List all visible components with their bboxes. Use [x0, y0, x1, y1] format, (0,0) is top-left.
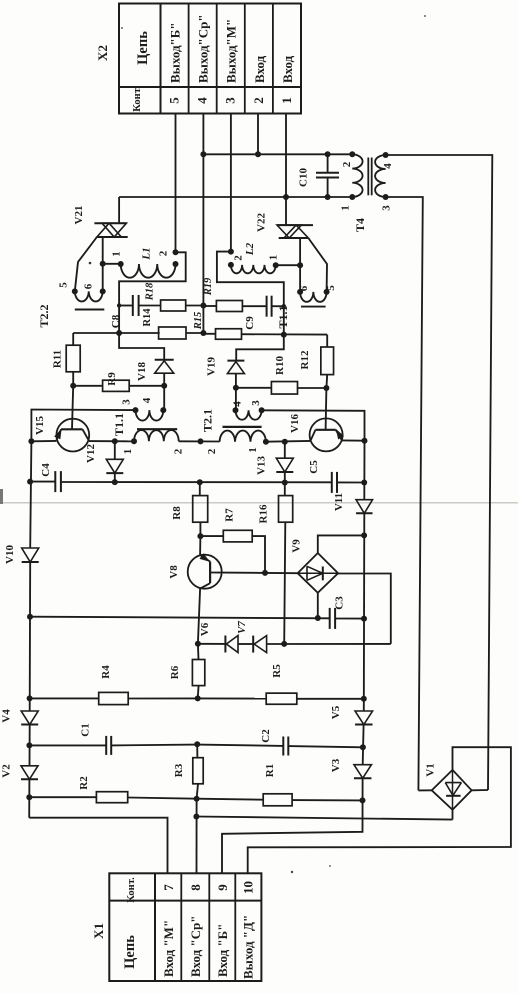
node C9 branch	[281, 332, 287, 338]
node R8-R7	[197, 533, 203, 539]
wire V22 gate to T1.1 pin5	[308, 238, 327, 292]
svg-text:Выход"М": Выход"М"	[224, 19, 239, 83]
node rail-V9bottom	[315, 615, 321, 621]
svg-text:R19: R19	[203, 277, 214, 296]
node rail-R4	[27, 695, 33, 701]
svg-text:2: 2	[341, 161, 353, 167]
svg-text:Выход "Д": Выход "Д"	[241, 915, 256, 979]
svg-text:R14: R14	[142, 308, 153, 327]
wire VLINE mid segment	[363, 513, 366, 711]
wire V16 emitter to corner	[342, 439, 365, 441]
node C10 bottom	[325, 194, 331, 200]
diode V18	[136, 360, 174, 410]
svg-text:Конт.: Конт.	[126, 877, 137, 903]
wire V7 to corner	[267, 643, 391, 645]
node C9 tap	[282, 304, 286, 308]
svg-text:R1: R1	[264, 764, 276, 777]
svg-text:V9: V9	[291, 539, 303, 553]
svg-text:V21: V21	[73, 206, 85, 225]
wire branch left channel	[119, 252, 186, 332]
wire X2 pin4 lead	[202, 114, 204, 334]
svg-text:V8: V8	[168, 565, 180, 579]
svg-text:1: 1	[247, 447, 259, 453]
svg-text:V12: V12	[85, 444, 97, 463]
node R7-V8base-V9	[262, 570, 268, 576]
svg-text:3: 3	[121, 399, 133, 405]
node rail-V15	[28, 438, 34, 444]
node C10 top	[325, 151, 331, 157]
svg-text:Т4: Т4	[353, 218, 367, 232]
resistor R4	[30, 665, 198, 705]
diode V19	[206, 357, 245, 411]
node R11-R9	[70, 383, 76, 389]
wire C9-branch to V19	[236, 335, 284, 361]
capacitor C3	[330, 596, 364, 629]
bridge rectifier V9	[291, 539, 339, 593]
bridge rectifier V1	[425, 763, 472, 810]
node R14-R15	[200, 330, 206, 336]
wire rail to X1 pin7	[29, 818, 167, 874]
svg-text:Выход"Б": Выход"Б"	[168, 22, 183, 83]
diode V2	[1, 764, 39, 818]
capacitor C2	[197, 729, 363, 756]
wire L1 pin1 link	[103, 263, 121, 265]
resistor R1	[197, 764, 363, 806]
node V12 bottom	[112, 479, 118, 485]
wire branch right channel	[217, 252, 284, 335]
node V8-V6	[195, 641, 201, 647]
wire T4 pin4 to right rail	[386, 155, 493, 790]
svg-text:6: 6	[83, 283, 95, 289]
wire V8base to V9 left vertex	[265, 572, 298, 574]
capacitor C10	[298, 154, 340, 197]
node rail-C1	[26, 742, 32, 748]
svg-text:Х1: Х1	[91, 923, 106, 939]
svg-text:V3: V3	[330, 758, 342, 772]
node R9-V18	[161, 383, 167, 389]
svg-text:Цепь: Цепь	[122, 935, 138, 969]
wire corner up to V9 right	[338, 574, 391, 644]
transformer T1.1 windings 3-4 and 1-2	[112, 397, 185, 454]
resistor R19	[203, 277, 267, 311]
connector X2 table	[119, 4, 301, 114]
wire V15 collector bus	[89, 440, 134, 442]
svg-text:Выход"Ср": Выход"Ср"	[196, 14, 211, 83]
svg-text:C8: C8	[110, 314, 122, 328]
svg-text:C1: C1	[80, 723, 92, 736]
transistor V16	[289, 388, 344, 451]
node B1	[283, 194, 289, 200]
svg-text:L2: L2	[244, 242, 256, 256]
wire V1 bottom lead	[452, 810, 454, 820]
resistor R16	[258, 483, 293, 644]
wire V21 cathode to T2.2 pin6	[102, 237, 104, 291]
capacitor C9	[244, 296, 284, 330]
capacitor C4	[30, 463, 61, 492]
node V21-L1	[100, 261, 106, 267]
inductor L2	[228, 242, 280, 273]
wire T4 pin3 to left-of-bridge rail	[386, 197, 423, 790]
resistor R12	[299, 335, 334, 388]
svg-text:3: 3	[250, 400, 262, 406]
svg-text:Т2.1: Т2.1	[201, 409, 215, 432]
svg-text:7: 7	[161, 884, 176, 891]
node A1	[200, 151, 206, 157]
resistor R18	[145, 282, 204, 311]
wire input bus B	[119, 196, 352, 198]
svg-text:2: 2	[251, 97, 266, 104]
node rail-R2	[26, 794, 32, 800]
triac V22	[256, 197, 314, 238]
wire VLINE bottom to X1 pin9	[222, 778, 363, 873]
svg-text:Х2: Х2	[95, 45, 110, 61]
svg-text:R7: R7	[224, 508, 236, 522]
triac V21	[73, 197, 128, 237]
svg-text:4: 4	[382, 163, 394, 169]
svg-text:R9: R9	[106, 372, 118, 386]
svg-text:V1: V1	[425, 763, 437, 776]
svg-text:5: 5	[58, 282, 70, 288]
svg-text:R8: R8	[171, 506, 183, 520]
wire col8 to X1 pin8	[196, 799, 198, 874]
wire W9 to V1 bottom	[196, 817, 452, 820]
svg-text:2: 2	[233, 255, 245, 261]
svg-text:1: 1	[111, 251, 123, 257]
svg-text:R10: R10	[274, 356, 286, 375]
resistor R11	[52, 333, 81, 386]
svg-text:1: 1	[279, 97, 294, 104]
svg-text:R11: R11	[52, 350, 64, 368]
diode V13	[256, 442, 294, 483]
wire L2 pin1 link	[276, 264, 300, 266]
diode V5	[330, 705, 373, 724]
svg-text:R3: R3	[173, 763, 185, 777]
svg-text:10: 10	[241, 881, 256, 894]
node center column	[198, 438, 204, 444]
wire base rail y333	[73, 332, 160, 334]
node col8-C1	[194, 741, 200, 747]
svg-text:R5: R5	[271, 664, 283, 678]
scan fold line	[0, 502, 518, 504]
transformer T4	[340, 151, 395, 232]
svg-text:C2: C2	[260, 729, 272, 743]
node R10-V19	[233, 385, 239, 391]
wire X2 pin1 lead	[285, 114, 287, 198]
wire left rail to T1.1 pin3	[31, 410, 135, 442]
diode V11	[333, 493, 373, 513]
resistor R2	[29, 776, 196, 803]
svg-text:9: 9	[215, 884, 230, 891]
svg-text:L1: L1	[141, 247, 153, 260]
node A2	[255, 151, 261, 157]
wire common rail y617	[30, 617, 330, 619]
diode V10	[4, 441, 39, 616]
wire T1.1 pin2 link	[179, 440, 220, 442]
wire VLINE between V5 V3	[362, 725, 365, 765]
node R16-V7	[281, 641, 287, 647]
svg-text:Вход "Ср": Вход "Ср"	[188, 915, 203, 977]
node VLINE-R5	[361, 696, 367, 702]
svg-text:1: 1	[268, 255, 280, 261]
wire T2.1 pin1 to V16	[266, 440, 311, 443]
wire C8-branch to V18	[119, 333, 164, 360]
svg-text:V11: V11	[333, 493, 345, 511]
node VLINE-R1	[360, 797, 366, 803]
svg-text:R12: R12	[299, 350, 311, 369]
node VLINE-C5	[361, 480, 367, 486]
svg-text:Т1.1: Т1.1	[112, 413, 126, 436]
svg-text:5: 5	[167, 97, 182, 104]
svg-text:4: 4	[195, 97, 210, 104]
diode V6	[198, 622, 238, 652]
node C8 tap	[117, 303, 121, 307]
connector X1 table	[109, 873, 261, 981]
svg-text:R2: R2	[78, 776, 90, 790]
transistor V8	[168, 536, 265, 644]
wire VLINE top segment	[363, 441, 365, 500]
node col8-R2-R1	[194, 796, 200, 802]
node V16-corner	[362, 438, 368, 444]
svg-text:1: 1	[340, 205, 352, 211]
capacitor C1	[29, 723, 197, 755]
svg-text:C4: C4	[40, 463, 52, 477]
svg-text:V19: V19	[206, 357, 218, 376]
node C8 branch	[116, 330, 122, 336]
resistor R9	[73, 372, 164, 392]
svg-text:V2: V2	[1, 764, 13, 778]
svg-text:2: 2	[173, 448, 185, 454]
svg-text:C3: C3	[334, 596, 346, 610]
resistor R10	[236, 356, 327, 395]
svg-text:C9: C9	[244, 316, 256, 330]
node rail left	[27, 614, 33, 620]
svg-text:Т2.2: Т2.2	[37, 304, 51, 327]
resistor R15	[193, 312, 327, 340]
transistor V15	[34, 386, 89, 452]
transformer T2.2 winding 5-6	[37, 282, 106, 328]
svg-text:Вход: Вход	[252, 55, 267, 83]
transformer T2.1 windings 4-3 and 2-1	[201, 400, 269, 455]
inductor L1	[111, 247, 179, 277]
node VLINE-C3	[361, 616, 367, 622]
wire V1 right vertex	[472, 789, 488, 791]
wire mid rail y482	[61, 481, 332, 483]
diode V4	[1, 617, 39, 766]
resistor R6	[169, 644, 205, 699]
svg-text:V16: V16	[289, 414, 301, 433]
svg-text:R4: R4	[100, 665, 112, 679]
svg-text:V4: V4	[1, 709, 13, 723]
svg-text:2: 2	[158, 250, 170, 256]
wire V21 gate to T2.2 pin5	[75, 237, 97, 291]
capacitor C5	[308, 460, 364, 493]
svg-text:V13: V13	[256, 456, 268, 475]
svg-text:3: 3	[381, 205, 393, 211]
node R6-R4-R5	[195, 695, 201, 701]
svg-text:C5: C5	[308, 460, 320, 474]
svg-text:6: 6	[298, 285, 310, 291]
diode V12	[85, 441, 123, 482]
resistor R7	[200, 508, 265, 573]
wire X2 pin5 lead	[175, 114, 177, 253]
svg-text:3: 3	[223, 97, 238, 104]
node L2 pin2 tap	[228, 249, 234, 255]
svg-text:Т1.1: Т1.1	[276, 305, 290, 328]
wire V15 emitter to left rail	[31, 440, 56, 442]
wire X2 pin3 lead	[230, 114, 232, 252]
wire V22 cathode to T1.1 pin6	[299, 238, 301, 292]
resistor R8	[171, 482, 208, 536]
svg-text:5: 5	[325, 285, 337, 291]
svg-text:1: 1	[122, 449, 134, 455]
svg-text:Вход "Б": Вход "Б"	[215, 924, 230, 978]
svg-text:V22: V22	[256, 213, 268, 232]
resistor R3	[173, 744, 203, 798]
resistor R5	[198, 664, 364, 704]
node rail-C4	[27, 479, 33, 485]
resistor R14	[142, 308, 203, 339]
svg-text:2: 2	[206, 448, 218, 454]
svg-text:C10: C10	[298, 168, 310, 187]
svg-text:V10: V10	[4, 545, 16, 564]
node V13 tap	[282, 439, 288, 445]
capacitor C8	[110, 295, 161, 328]
svg-text:R16: R16	[258, 504, 270, 523]
node V13 bottom	[282, 480, 288, 486]
node VLINE-C2	[360, 744, 366, 750]
wire T2.1 pin3 to V16 corner	[262, 410, 365, 440]
wire V1 left vertex	[418, 789, 431, 791]
node VLINE-V9top	[361, 532, 367, 538]
svg-text:V5: V5	[330, 705, 342, 719]
svg-text:V15: V15	[34, 416, 46, 435]
svg-text:V7: V7	[236, 621, 248, 634]
wire V1 top to X1 pin10	[248, 747, 511, 873]
wire V9 bottom lead	[317, 593, 319, 618]
node V12 tap	[112, 438, 118, 444]
node V22-L2	[297, 262, 303, 268]
svg-text:4: 4	[141, 397, 153, 403]
svg-text:4: 4	[232, 401, 244, 407]
diode V7	[236, 621, 267, 653]
svg-text:Цепь: Цепь	[135, 31, 151, 65]
svg-text:V6: V6	[199, 622, 211, 636]
svg-text:R18: R18	[145, 282, 156, 301]
svg-text:8: 8	[188, 884, 203, 891]
node center-column y482	[197, 479, 203, 485]
wire input bus A	[203, 153, 352, 155]
svg-text:Вход "М": Вход "М"	[161, 920, 176, 977]
svg-text:Вход: Вход	[280, 55, 295, 83]
wire X2 pin2 lead	[257, 114, 259, 155]
svg-text:Конт.: Конт.	[132, 86, 143, 112]
node R18-R19	[200, 303, 206, 309]
svg-text:R6: R6	[169, 665, 181, 679]
wire V9 top to VLINE	[318, 535, 364, 553]
diode V3	[330, 758, 371, 778]
node R12-R10	[323, 385, 329, 391]
svg-text:V18: V18	[136, 362, 148, 381]
node col8-W9	[193, 814, 199, 820]
svg-text:R15: R15	[193, 312, 204, 331]
node L1 pin2 tap	[173, 249, 179, 255]
transformer T1.1 winding 5-6	[276, 285, 337, 329]
